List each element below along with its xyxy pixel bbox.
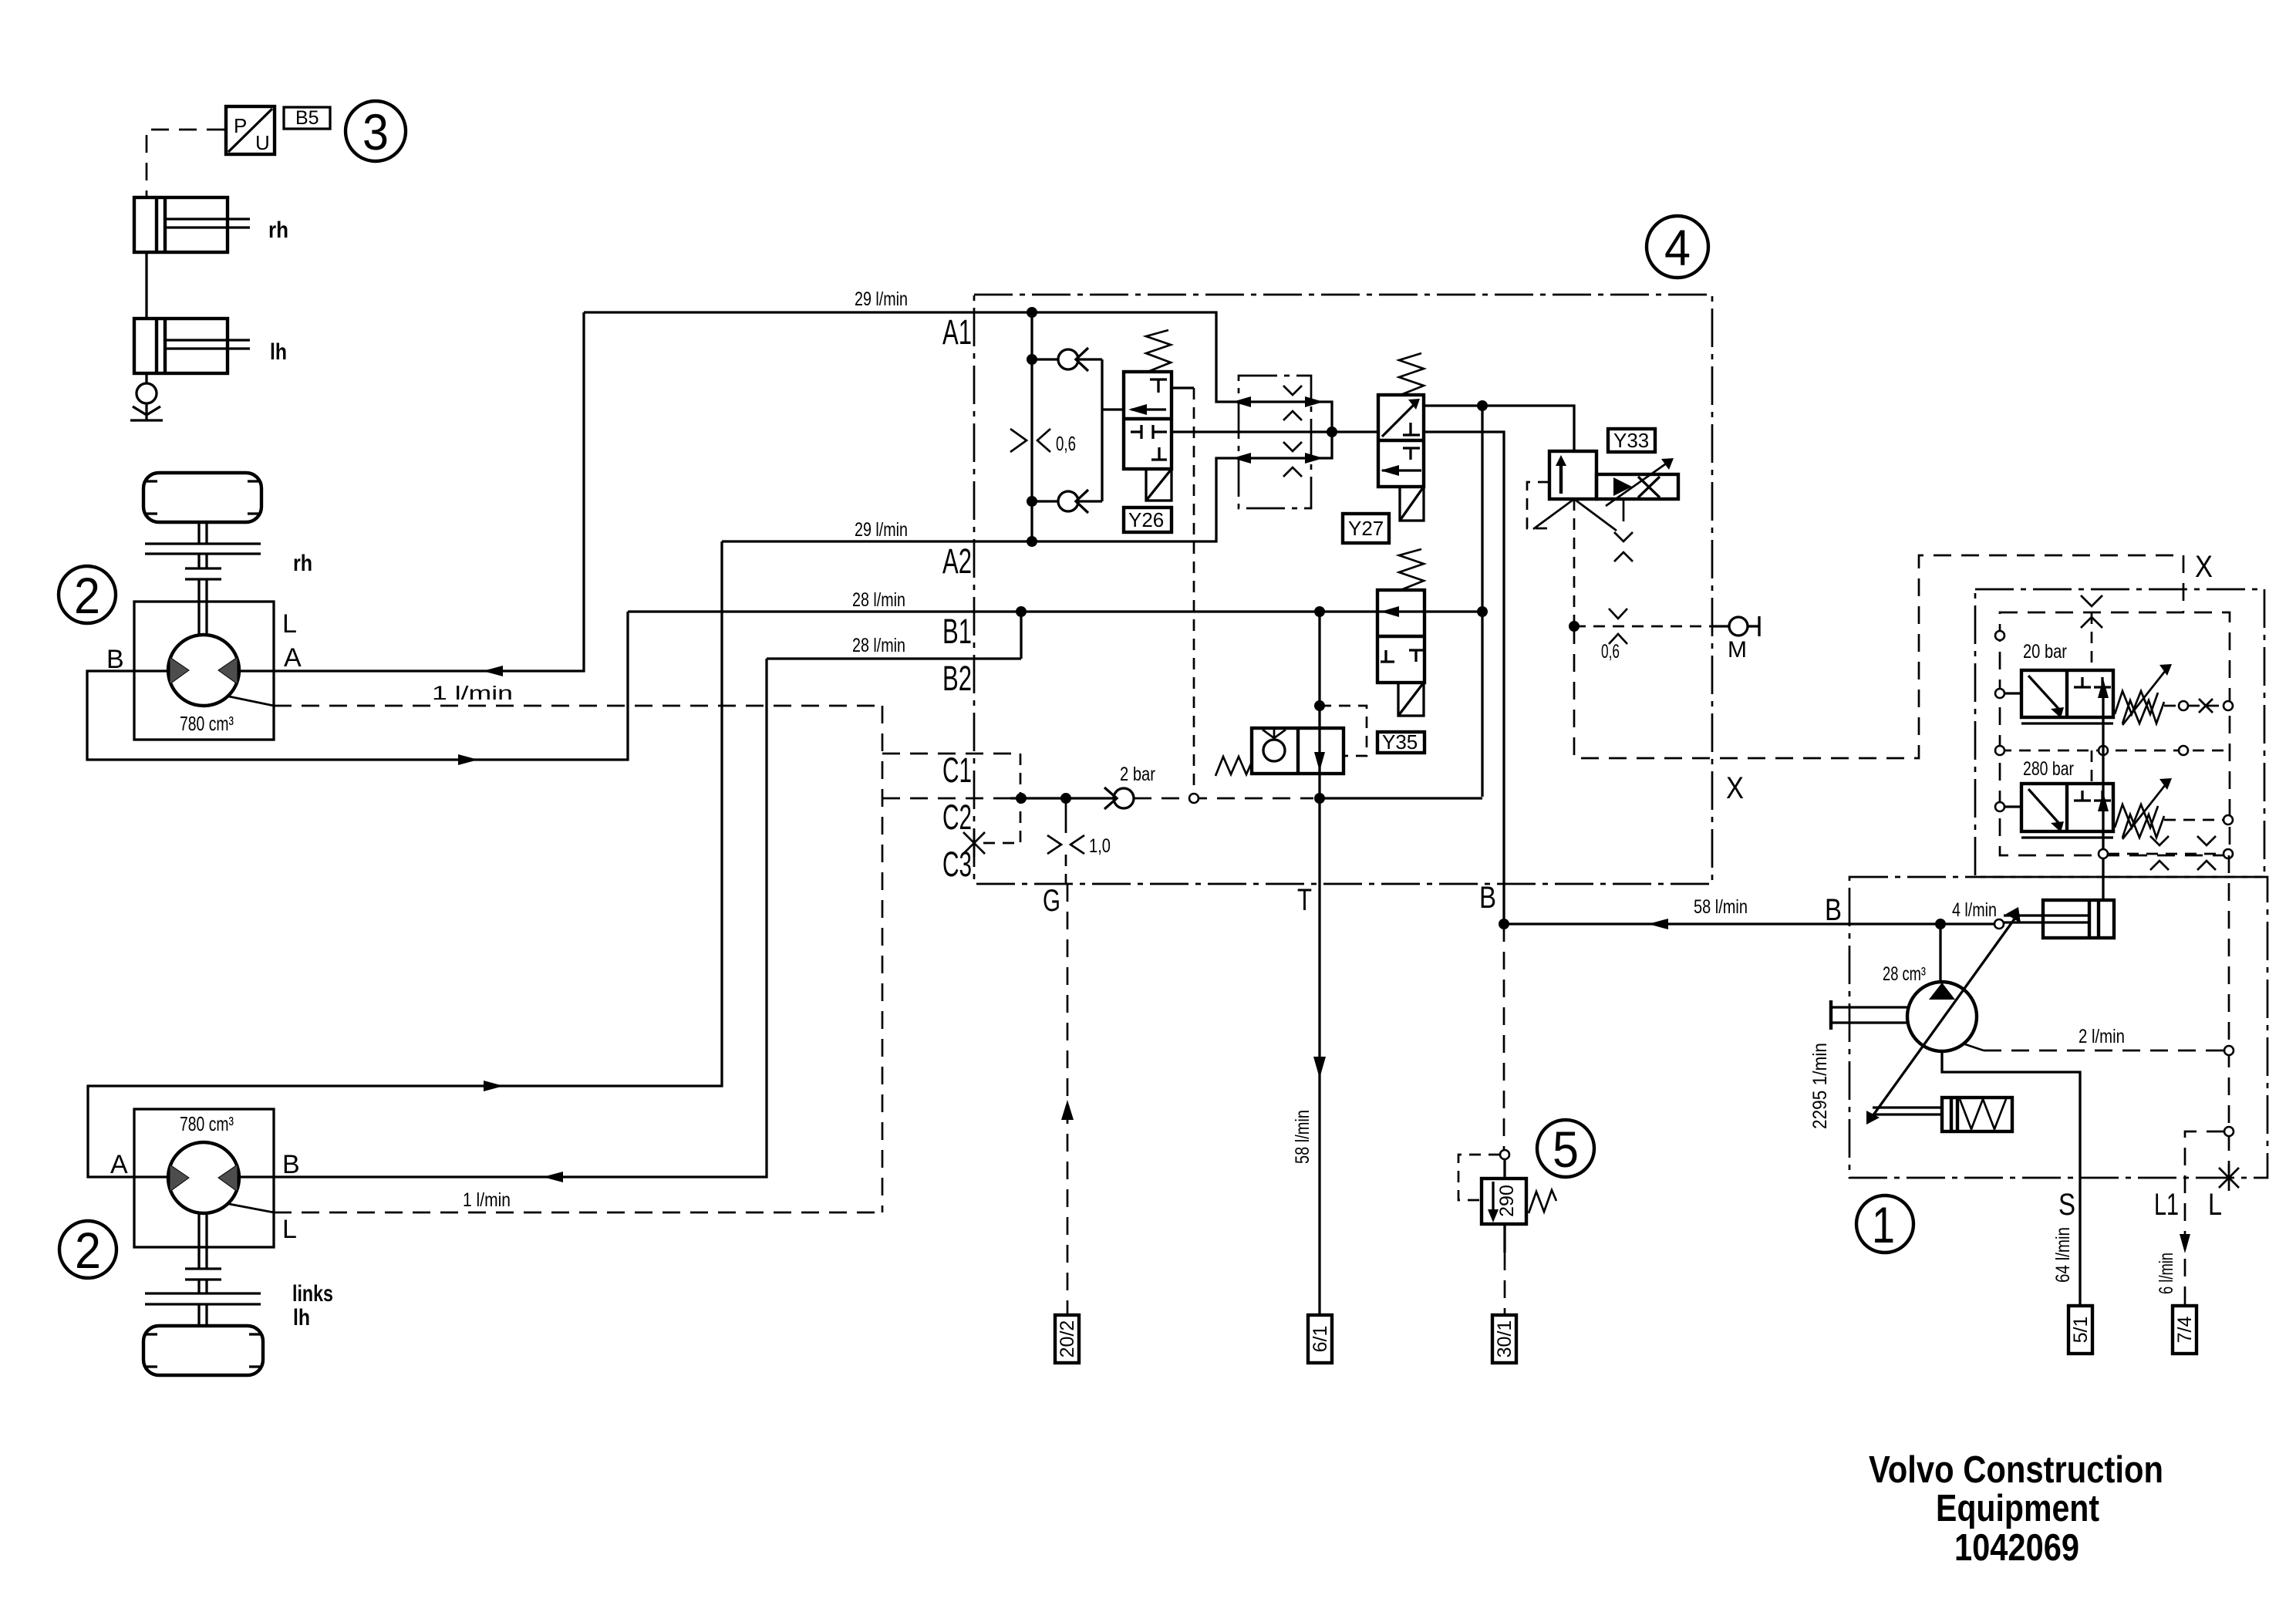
node 0,6 junction xyxy=(1569,621,1580,632)
svg-text:6/1: 6/1 xyxy=(1310,1326,1331,1353)
valve Y27 xyxy=(1378,353,1424,521)
svg-text:L: L xyxy=(282,609,297,639)
balloon 4 xyxy=(1647,216,1708,278)
svg-text:rh: rh xyxy=(293,551,312,576)
connector 6/1 xyxy=(1308,1315,1332,1363)
svg-text:T: T xyxy=(1297,883,1312,917)
svg-text:29 l/min: 29 l/min xyxy=(855,519,908,541)
svg-text:B: B xyxy=(106,645,124,674)
wire T to Y33 column xyxy=(1320,797,1482,799)
svg-text:A2: A2 xyxy=(942,541,972,581)
pump drive shaft xyxy=(1809,1000,1908,1129)
motor M rh case xyxy=(134,602,274,740)
arrow right on A loop xyxy=(484,1081,504,1091)
wire G line xyxy=(1065,798,1067,833)
svg-text:P: P xyxy=(234,114,247,137)
valve 290 relief xyxy=(1458,1155,1556,1253)
block 1 border xyxy=(1849,877,2267,1178)
wire cylinders link xyxy=(145,252,147,319)
pump 28cm3 xyxy=(1883,924,1977,1051)
svg-text:G: G xyxy=(1043,884,1060,918)
svg-text:2295 1/min: 2295 1/min xyxy=(1809,1043,1831,1129)
valve Y26 xyxy=(1124,330,1172,501)
shuttle rail vertical xyxy=(1030,312,1033,541)
label Y27 xyxy=(1343,514,1389,543)
orifice 0,6 symbols xyxy=(1010,429,1027,452)
pilot to check dashed xyxy=(1320,706,1367,756)
svg-text:Y27: Y27 xyxy=(1348,517,1384,540)
check valve lower xyxy=(1027,490,1102,513)
svg-text:20 bar: 20 bar xyxy=(2023,641,2067,663)
servo piston small circle xyxy=(1994,919,2004,929)
stub C3 blocked xyxy=(963,829,1020,857)
wire A2 29 l/min xyxy=(722,432,1332,541)
svg-text:4 l/min: 4 l/min xyxy=(1952,899,1997,921)
svg-text:64 l/min: 64 l/min xyxy=(2052,1227,2074,1283)
axle shaft rh xyxy=(145,522,312,636)
relief outlet column xyxy=(2098,679,2233,900)
label Y33 xyxy=(1608,429,1655,452)
relief block border dash-dot xyxy=(1975,589,2264,877)
pilot X dashed xyxy=(1574,555,2183,758)
node T pilot junction xyxy=(1314,700,1325,711)
svg-text:1 l/min: 1 l/min xyxy=(463,1189,511,1211)
svg-text:C2: C2 xyxy=(942,798,972,837)
motor M lh case xyxy=(134,1109,274,1247)
balloon 2 upper xyxy=(59,566,116,624)
wire Y27 pilot out xyxy=(1424,406,1574,451)
svg-text:Volvo Construction: Volvo Construction xyxy=(1869,1449,2163,1491)
svg-text:X: X xyxy=(1726,771,1744,805)
shuttle arrows upper xyxy=(1232,396,1251,407)
svg-text:Y33: Y33 xyxy=(1613,429,1649,452)
balloon 3 xyxy=(346,101,406,161)
svg-text:2: 2 xyxy=(74,567,100,624)
wire 2bar to T xyxy=(1134,798,1313,800)
cylinder rh xyxy=(134,197,288,252)
svg-text:B2: B2 xyxy=(942,659,972,698)
wire mid to Y27 xyxy=(1172,430,1378,433)
svg-text:links: links xyxy=(292,1281,333,1307)
arrow right on B loop xyxy=(458,754,478,765)
label B5 xyxy=(284,107,330,129)
svg-text:1042069: 1042069 xyxy=(1954,1527,2079,1569)
svg-text:780 cm³: 780 cm³ xyxy=(180,712,234,735)
svg-text:L: L xyxy=(2208,1188,2222,1222)
relief valve 280 bar xyxy=(1995,746,2233,839)
compensator spring box xyxy=(1873,1098,2012,1131)
swashplate arm xyxy=(1866,907,2021,1125)
node pump B junction xyxy=(1935,919,1946,929)
title block text xyxy=(1869,1449,2163,1569)
wire C2 2 bar line xyxy=(882,793,1114,804)
wire S 64 l/min xyxy=(1942,1051,2080,1306)
connector 30/1 xyxy=(1492,1315,1516,1363)
wire L1 6 l/min xyxy=(2154,1131,2224,1306)
wire T line xyxy=(1318,612,1320,1315)
svg-text:1: 1 xyxy=(1872,1196,1895,1253)
wire Y27 to B column xyxy=(1424,432,1504,924)
svg-text:L: L xyxy=(282,1215,297,1244)
svg-text:780 cm³: 780 cm³ xyxy=(180,1112,234,1135)
wire B 58 l/min xyxy=(1499,896,1994,929)
orifice 0,6 to gauge M xyxy=(1574,609,1759,663)
svg-text:0,6: 0,6 xyxy=(1056,432,1076,455)
wire B2 28 l/min xyxy=(767,657,1021,659)
svg-text:20/2: 20/2 xyxy=(1057,1320,1078,1358)
drain L lh dashed xyxy=(229,1204,274,1212)
check valve tie line xyxy=(1101,359,1103,501)
svg-text:2 l/min: 2 l/min xyxy=(2079,1026,2125,1047)
arrow left into A xyxy=(483,666,503,676)
wire B1 28 l/min xyxy=(628,610,1482,612)
svg-text:M: M xyxy=(1728,637,1747,663)
svg-text:S: S xyxy=(2058,1188,2075,1222)
check valve drain xyxy=(130,373,163,420)
svg-text:30/1: 30/1 xyxy=(1494,1320,1515,1358)
check block pilot operated xyxy=(1215,728,1344,776)
svg-text:lh: lh xyxy=(293,1305,310,1330)
arrow left into B xyxy=(543,1172,563,1182)
valve Y35 pilot-2 xyxy=(1377,549,1424,716)
Y26 tank stub to G xyxy=(1172,386,1194,389)
balloon 2 lower xyxy=(59,1221,116,1279)
svg-text:7/4: 7/4 xyxy=(2174,1317,2196,1344)
label Y26 xyxy=(1124,508,1172,532)
svg-text:lh: lh xyxy=(270,339,287,365)
wire A port lh xyxy=(88,541,722,1177)
svg-text:B1: B1 xyxy=(942,612,972,651)
svg-text:B: B xyxy=(282,1150,300,1179)
svg-text:4: 4 xyxy=(1664,219,1691,276)
drain column L dashed xyxy=(2228,855,2230,1173)
node shuttle mid xyxy=(1327,427,1337,437)
svg-text:29 l/min: 29 l/min xyxy=(855,288,908,310)
svg-text:2 bar: 2 bar xyxy=(1120,764,1155,785)
svg-text:rh: rh xyxy=(268,218,288,243)
svg-text:1,0: 1,0 xyxy=(1089,835,1111,857)
wheel rh xyxy=(143,473,261,522)
node B1-B2 tie xyxy=(1016,606,1027,617)
svg-text:3: 3 xyxy=(362,103,389,160)
svg-text:A: A xyxy=(110,1150,128,1179)
svg-text:290: 290 xyxy=(1496,1185,1518,1217)
block 4 border xyxy=(974,295,1712,884)
valve Y33 xyxy=(1527,451,1678,561)
svg-text:Equipment: Equipment xyxy=(1936,1488,2099,1529)
svg-text:5: 5 xyxy=(1553,1121,1579,1178)
svg-text:B5: B5 xyxy=(295,107,319,129)
svg-text:2: 2 xyxy=(75,1222,101,1279)
drain L rh dashed xyxy=(229,696,274,706)
svg-text:C1: C1 xyxy=(942,750,972,790)
axle shaft lh xyxy=(145,1213,333,1330)
wire A1 29 l/min xyxy=(584,312,1332,432)
svg-text:58 l/min: 58 l/min xyxy=(1694,896,1748,918)
connector 7/4 xyxy=(2173,1306,2197,1354)
relief valve 20 bar xyxy=(1995,612,2233,725)
svg-text:U: U xyxy=(255,131,270,154)
label Y35 xyxy=(1377,730,1424,754)
svg-text:28 l/min: 28 l/min xyxy=(852,635,905,656)
node A2 junction xyxy=(1027,536,1037,547)
orifice on pilot top xyxy=(2081,595,2102,606)
svg-text:280 bar: 280 bar xyxy=(2023,758,2074,780)
balloon 5 xyxy=(1537,1120,1594,1178)
node T top junction xyxy=(1314,606,1325,617)
svg-text:L1: L1 xyxy=(2154,1188,2179,1222)
balloon 1 xyxy=(1856,1195,1913,1253)
motor M lh xyxy=(168,1112,239,1213)
svg-text:28 cm³: 28 cm³ xyxy=(1883,963,1926,985)
wire B port lh xyxy=(239,659,767,1177)
wire Y33 drain to orifice xyxy=(1573,499,1576,626)
connector 20/2 xyxy=(1055,1315,1079,1363)
svg-text:58 l/min: 58 l/min xyxy=(1292,1110,1313,1164)
wire sensor pilot dashed xyxy=(147,130,224,197)
svg-text:28 l/min: 28 l/min xyxy=(852,589,905,611)
pressure sensor P/U B5 xyxy=(226,106,275,154)
svg-text:A: A xyxy=(284,643,302,673)
pump case drain 2 l/min xyxy=(1965,1026,2224,1050)
wire C1 dashed xyxy=(882,753,1019,755)
drain manifold vertical dashed xyxy=(882,706,884,1212)
svg-text:B: B xyxy=(1825,893,1842,927)
motor M rh xyxy=(168,635,239,735)
check valve upper xyxy=(1027,348,1102,371)
cylinder lh xyxy=(134,319,287,373)
wire B to valve 290 dashed xyxy=(1503,924,1505,1150)
check valve 2 bar xyxy=(1104,764,1155,809)
wire Y33 feed column xyxy=(1481,406,1483,797)
svg-text:X: X xyxy=(2195,550,2213,584)
Y26 feed xyxy=(1102,408,1124,410)
connector 5/1 xyxy=(2068,1306,2092,1354)
shuttle box dash-dot xyxy=(1239,376,1311,508)
svg-text:5/1: 5/1 xyxy=(2070,1317,2092,1344)
servo cylinder xyxy=(2004,900,2114,938)
wire to connector 30/1 xyxy=(1504,1253,1506,1315)
svg-text:Y35: Y35 xyxy=(1382,730,1418,754)
svg-text:1 l/min: 1 l/min xyxy=(432,683,513,704)
relief inner dashed box xyxy=(2000,612,2230,855)
star L blocked xyxy=(2219,1165,2239,1191)
wheel lh xyxy=(143,1326,263,1375)
svg-text:Y26: Y26 xyxy=(1128,508,1164,531)
svg-text:B: B xyxy=(1479,881,1496,915)
shuttle arrows lower xyxy=(1232,453,1251,464)
svg-text:0,6: 0,6 xyxy=(1601,641,1620,663)
orifice 1,0 on G xyxy=(1047,835,1111,857)
svg-text:A1: A1 xyxy=(942,312,972,352)
svg-text:6 l/min: 6 l/min xyxy=(2156,1253,2177,1294)
wire A port rh xyxy=(239,312,584,671)
wire B port rh xyxy=(87,612,628,760)
wire C1-C3 tie dashed xyxy=(1020,754,1022,843)
node A1 junction xyxy=(1027,307,1037,318)
